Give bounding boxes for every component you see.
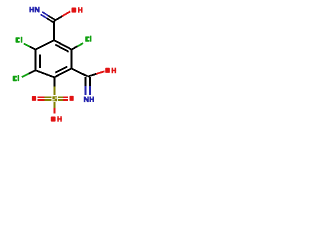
wire ring bond TL-T <box>36 40 54 49</box>
atom label OH bottom <box>51 116 62 122</box>
atom label Cl top right <box>85 36 91 42</box>
atom label Cl lower left <box>13 75 19 81</box>
atom label Cl upper left <box>16 37 23 43</box>
wire bond S-OH bottom <box>54 102 56 113</box>
wire double bond C1=N1 <box>41 12 55 22</box>
wire ring double bond T-TR <box>54 40 72 52</box>
wire ring bond B-BL <box>36 70 55 77</box>
atom label NH bottom right <box>84 97 89 103</box>
wire double bond S=O left <box>37 97 51 100</box>
wire double bond S=O right <box>58 97 68 100</box>
wire bond C1-O top <box>54 11 70 21</box>
wire ring bond TR-BR <box>71 50 73 69</box>
atom label O left of S <box>32 96 36 101</box>
wire bond C2-O right <box>88 71 105 76</box>
wire bond BR to amide C2 <box>72 69 88 77</box>
wire bond TL-Cl <box>24 44 36 50</box>
wire bond T to amidine C1 <box>53 21 55 40</box>
atom label OH top right <box>72 7 83 13</box>
wire bond B-S <box>54 77 56 95</box>
wire ring double bond BL-TL <box>36 50 40 71</box>
atom label HN top left <box>29 7 34 13</box>
atom label O right of S <box>70 96 74 101</box>
wire double bond C2=N2 <box>86 77 90 95</box>
wire bond TR-Cl <box>72 43 84 49</box>
atom label OH right <box>105 68 116 74</box>
wire bond BL-Cl <box>22 70 36 77</box>
atom label S sulfur <box>52 96 57 101</box>
wire ring double bond BR-B <box>54 67 71 78</box>
